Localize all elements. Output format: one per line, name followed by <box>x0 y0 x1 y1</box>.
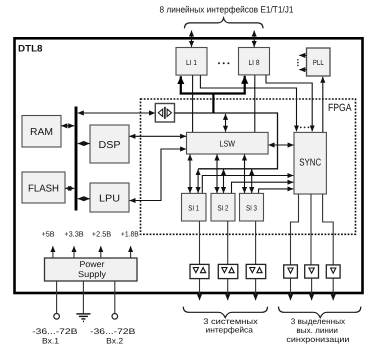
label 3 dedicated sync output lines <box>286 317 349 344</box>
svg-text:SI 2: SI 2 <box>218 203 229 212</box>
wire LI1 external line (double arrow) <box>191 31 193 47</box>
block SI3 <box>240 193 264 221</box>
driver D6 (output) <box>326 265 340 278</box>
wire SYNC to PLL <box>322 77 324 133</box>
wire SYNC leg 1 <box>291 194 299 265</box>
wire driver5 out <box>311 278 313 300</box>
svg-text:LPU: LPU <box>99 193 120 204</box>
label -36...-72V In1 <box>32 327 77 345</box>
frame DTL8 <box>15 38 363 293</box>
wire +5V arrow <box>52 246 54 258</box>
block LPU <box>90 183 129 212</box>
wire SI3-control (double arrow) <box>251 169 253 193</box>
wire bus-transceiver (double arrow) <box>78 112 155 114</box>
svg-text:+3.3В: +3.3В <box>64 230 83 239</box>
svg-text:DSP: DSP <box>99 140 121 151</box>
block FLASH <box>22 172 65 203</box>
driver D1 (bidirectional) <box>190 264 209 278</box>
svg-text:8 линейных интерфейсов E1/T1/J: 8 линейных интерфейсов E1/T1/J1 <box>160 5 294 15</box>
wire LSW-SI2 (double arrow) <box>216 155 218 194</box>
wire LPU-LSW (double arrow, bent) <box>130 149 187 201</box>
svg-text:LSW: LSW <box>220 138 236 148</box>
dots PLL outputs <box>297 59 299 66</box>
svg-text:SI 1: SI 1 <box>188 203 199 212</box>
brace top (over LI arrows) <box>185 18 264 28</box>
wire LI1-LSW <box>192 75 194 132</box>
wire SI2-control (double arrow) <box>223 169 225 193</box>
block RAM <box>22 116 61 148</box>
driver D5 (output) <box>305 265 319 278</box>
svg-text:синхронизации: синхронизации <box>286 335 349 344</box>
wire SI2 to driver 2 <box>227 221 229 264</box>
svg-text:FPGA: FPGA <box>328 102 352 114</box>
svg-text:DTL8: DTL8 <box>18 44 43 55</box>
svg-text:PLL: PLL <box>313 58 324 67</box>
svg-text:-36...-72В: -36...-72В <box>32 327 77 336</box>
wire LI8 clock to SYNC <box>266 75 312 131</box>
dots between LI blocks <box>218 62 229 64</box>
block DSP <box>90 125 129 163</box>
wire thick arrow into LI1 <box>180 76 182 94</box>
wire driver2 out <box>227 279 229 301</box>
wire SI1-control (double arrow) <box>197 169 199 193</box>
wire LSW-SI3 (double arrow) <box>244 155 246 194</box>
driver D4 (output) <box>284 265 298 278</box>
block SI1 <box>182 193 207 221</box>
wire PLL output stub 2 <box>299 69 306 71</box>
svg-text:3 выделенных: 3 выделенных <box>291 317 345 326</box>
block LI1 <box>176 48 207 76</box>
wire LSW-SYNC (double arrow) <box>269 144 294 146</box>
wire SI2 clock to SYNC <box>232 182 294 193</box>
svg-text:+5В: +5В <box>42 230 55 239</box>
svg-text:RAM: RAM <box>30 127 53 138</box>
CPU bus (thick vertical) <box>75 107 78 211</box>
terminal input 1 <box>54 314 60 320</box>
driver D3 (bidirectional) <box>246 264 266 278</box>
brace bottom left <box>183 307 267 318</box>
svg-text:LI 8: LI 8 <box>249 58 260 67</box>
brace bottom right <box>279 307 361 318</box>
wire bus-LPU (double arrow) <box>78 198 90 200</box>
driver D2 (bidirectional) <box>218 264 238 278</box>
wire power input 2 <box>114 281 116 313</box>
dots above SYNC <box>300 127 309 129</box>
wire power input 1 <box>56 281 58 313</box>
FPGA dashed boundary <box>141 99 356 234</box>
svg-text:FLASH: FLASH <box>28 183 59 194</box>
wire SYNC leg 2 <box>310 194 312 265</box>
wire RAM-bus (double arrow) <box>61 125 74 127</box>
block LSW <box>187 132 269 154</box>
svg-text:SI 3: SI 3 <box>246 203 257 212</box>
wire +2.5V arrow <box>100 246 102 258</box>
wire SI3 to driver 3 <box>255 221 257 264</box>
svg-text:Power: Power <box>80 259 105 269</box>
control bus loop wire (icon to SI row) <box>175 113 278 169</box>
svg-text:Вх.1: Вх.1 <box>42 336 60 345</box>
block LI8 <box>239 48 270 75</box>
wire driver6 out <box>332 278 334 300</box>
svg-text:интерфейса: интерфейса <box>206 325 254 334</box>
wire LI8-LSW <box>254 75 256 132</box>
wire PLL output stub 1 <box>299 54 306 56</box>
block SI2 <box>211 193 235 221</box>
wire FLASH-bus (double arrow) <box>65 187 74 189</box>
svg-text:LI 1: LI 1 <box>186 58 197 67</box>
wire LI1 clock to SYNC <box>200 75 296 131</box>
label 3 system interfaces <box>203 317 258 334</box>
wire DSP-LSW (double arrow) <box>129 135 186 137</box>
wire SI1 clock to SYNC <box>202 176 293 194</box>
wire driver3 out <box>255 279 257 301</box>
transceiver buffer icon U-buf <box>155 104 174 123</box>
wire thick arrow into LI8 <box>244 76 246 95</box>
wire control-LSW (double arrow) <box>225 114 227 132</box>
terminal input 2 <box>112 314 118 320</box>
wire LSW-SI1 (double arrow) <box>189 155 191 194</box>
wire bus-DSP (double arrow) <box>78 143 90 145</box>
block SYNC <box>294 132 326 194</box>
svg-text:+1.8В: +1.8В <box>121 230 139 239</box>
wire +3.3V arrow <box>73 246 75 258</box>
block Power Supply <box>45 258 138 281</box>
wire SI3 clock to SYNC <box>259 189 294 193</box>
svg-text:-36...-72В: -36...-72В <box>90 327 135 336</box>
LI feed bus (thick) horizontal <box>180 92 246 94</box>
wire SI1 to driver 1 <box>199 221 201 264</box>
svg-text:Вх.2: Вх.2 <box>106 336 124 345</box>
wire driver1 out <box>199 279 201 301</box>
ground symbol <box>76 314 90 322</box>
svg-text:вых. линии: вых. линии <box>296 326 338 335</box>
block PLL <box>307 48 331 76</box>
wire thick drop to control line <box>212 93 214 113</box>
svg-text:+2.5В: +2.5В <box>92 230 111 239</box>
wire LI8 external line (double arrow) <box>253 31 255 47</box>
label -36...-72V In2 <box>90 327 135 345</box>
wire power ground <box>82 281 84 314</box>
svg-text:SYNC: SYNC <box>299 158 321 169</box>
wire SYNC leg 3 <box>323 194 334 265</box>
wire driver4 out <box>290 278 292 300</box>
svg-text:Supply: Supply <box>78 269 107 279</box>
wire +1.8V arrow <box>130 246 132 258</box>
